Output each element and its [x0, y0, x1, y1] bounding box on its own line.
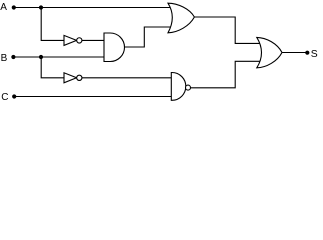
svg-text:S: S — [311, 49, 318, 60]
wire OR2 output to S — [282, 52, 306, 54]
node A junction — [39, 5, 43, 9]
wire C horizontal — [16, 96, 172, 98]
NAND gate U5 — [171, 73, 186, 101]
node B terminal dot — [11, 55, 15, 59]
OR gate U1 (top) — [168, 3, 194, 33]
node B junction — [39, 55, 43, 59]
wire B branch vertical — [41, 57, 64, 78]
OR gate U6 (output) — [257, 37, 282, 67]
node C terminal dot — [12, 94, 16, 98]
node A terminal dot — [12, 5, 16, 9]
inverter U4 triangle (B path) — [64, 73, 77, 83]
svg-text:A: A — [0, 2, 7, 13]
wire AND output up to OR1 input — [125, 27, 172, 47]
svg-text:B: B — [1, 53, 8, 64]
inverter U2 bubble — [77, 38, 82, 43]
wire NAND output up to OR2 input — [190, 61, 260, 88]
AND gate U3 — [104, 33, 124, 62]
wire A branch vertical — [41, 8, 64, 41]
NAND U5 bubble — [186, 85, 191, 90]
wire NOT1 output to AND input — [82, 39, 104, 41]
inverter U2 triangle (A path) — [64, 35, 77, 45]
svg-text:C: C — [1, 92, 8, 103]
wire OR1 output down to OR2 input — [194, 17, 260, 43]
wire A horizontal — [15, 7, 172, 9]
node S terminal dot — [305, 51, 309, 55]
wire B horizontal — [15, 56, 104, 58]
wire NOT2 output to NAND input — [82, 77, 172, 79]
inverter U4 bubble — [77, 75, 82, 80]
